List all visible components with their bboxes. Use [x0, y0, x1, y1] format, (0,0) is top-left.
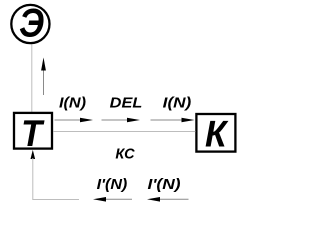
svg-text:I(N): I(N) — [163, 96, 192, 112]
arrow DEL — [102, 118, 141, 123]
wire bottom elbow from Т — [33, 158, 79, 200]
svg-text:К: К — [205, 114, 229, 155]
arrow I(N) from Т — [55, 118, 94, 123]
arrow I(N) into К — [151, 118, 195, 123]
box Т — [14, 113, 52, 154]
arrow up into Т bottom — [31, 150, 36, 159]
arrow up toward Э — [41, 58, 46, 96]
node Э (circle) — [11, 1, 49, 45]
svg-text:Э: Э — [19, 1, 44, 45]
svg-text:I(N): I(N) — [59, 96, 86, 112]
arrow I'(N) second (leftward) — [147, 197, 189, 202]
svg-text:I'(N): I'(N) — [148, 177, 181, 193]
svg-text:Т: Т — [21, 113, 45, 154]
wire: circle Э down to box Т — [31, 44, 33, 112]
arrow I'(N) first (leftward) — [93, 197, 132, 202]
svg-text:I'(N): I'(N) — [97, 177, 128, 193]
svg-text:КС: КС — [115, 146, 135, 162]
wire КС between boxes — [54, 131, 196, 133]
svg-text:DEL: DEL — [110, 96, 143, 112]
box К — [196, 114, 235, 155]
